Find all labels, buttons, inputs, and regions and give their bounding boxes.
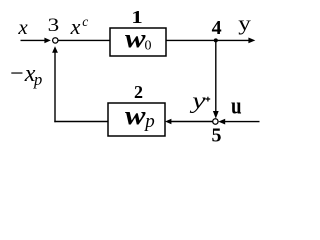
node 3 summing junction — [53, 38, 58, 43]
node 4 dot — [214, 38, 218, 42]
svg-text:2: 2 — [134, 82, 143, 102]
arrowhead into node 5 from above — [213, 111, 219, 119]
wire block 1 to output y — [166, 39, 250, 41]
svg-text:0: 0 — [145, 39, 152, 54]
svg-text:y: y — [189, 87, 206, 113]
block 1 W0 — [110, 28, 166, 56]
arrowhead into node 3 — [44, 38, 50, 44]
arrowhead output y — [248, 38, 255, 44]
svg-text:−x: −x — [9, 61, 36, 87]
svg-text:p: p — [33, 70, 42, 89]
arrowhead from u into node 5 — [218, 119, 225, 125]
svg-text:c: c — [82, 14, 88, 29]
wire node 5 to block 2 — [170, 121, 213, 123]
svg-text:u: u — [231, 92, 242, 119]
svg-text:y: y — [238, 12, 251, 36]
wire node 3 to block 1 — [58, 39, 110, 41]
svg-text:5: 5 — [212, 125, 222, 146]
block 2 Wp — [108, 103, 165, 136]
label + superscript — [206, 97, 211, 102]
node 5 junction — [213, 119, 218, 124]
svg-text:p: p — [143, 111, 155, 132]
svg-text:x: x — [17, 15, 28, 39]
arrowhead into block 2 — [165, 119, 171, 125]
svg-text:3: 3 — [48, 14, 60, 36]
wire u input to node 5 — [223, 121, 260, 123]
svg-text:4: 4 — [212, 17, 222, 39]
wire input x to node 3 — [21, 39, 46, 41]
svg-text:x: x — [70, 14, 81, 39]
svg-text:w: w — [125, 25, 147, 53]
wire node 4 down to node 5 — [215, 40, 217, 113]
wire block 2 to left corner — [54, 121, 108, 123]
wire left corner up to node 3 — [54, 52, 56, 123]
arrowhead into node 3 from below — [52, 46, 58, 53]
svg-text:w: w — [125, 102, 147, 130]
